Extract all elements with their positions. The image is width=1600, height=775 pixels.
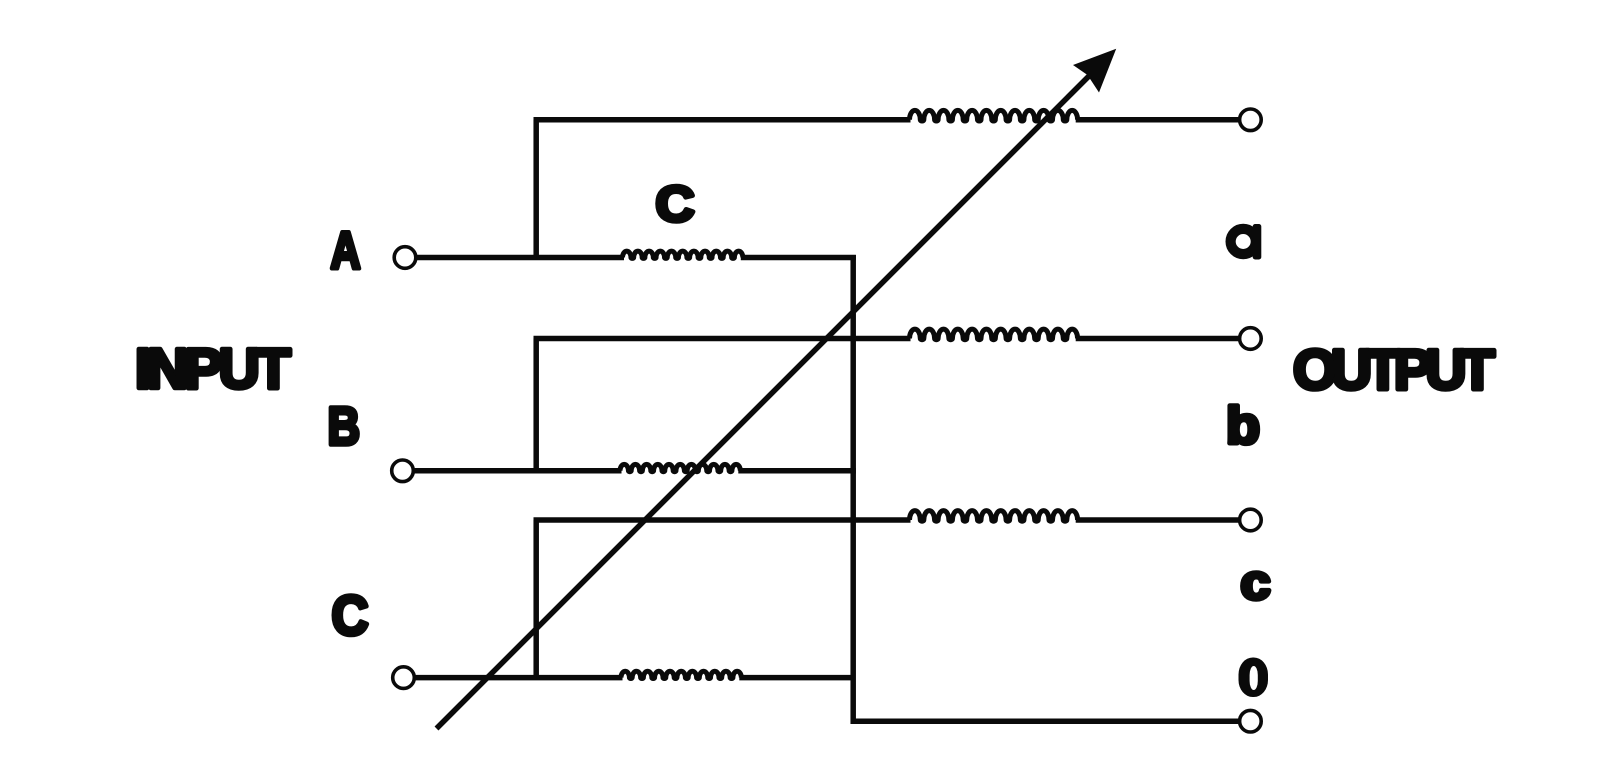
- inductor winding on output line c: [910, 511, 1078, 522]
- wire: vertical riser x=536 from line a down to line B: [533, 339, 539, 471]
- inductor winding on line B: [620, 464, 740, 471]
- wire: top line left segment: [534, 117, 911, 123]
- wire: output line c right segment: [1076, 517, 1239, 523]
- wire: line C right segment to bus: [739, 675, 851, 681]
- wire: line B left segment from input terminal B: [415, 468, 622, 474]
- wire: vertical riser x=536 from top line down to line A: [533, 120, 539, 258]
- svg-text:INPUT: INPUT: [135, 337, 291, 401]
- wire: output line a left segment: [534, 336, 911, 342]
- wire: vertical riser x=536 from line c down to line C: [533, 520, 539, 678]
- inductor winding on top output line: [910, 110, 1078, 121]
- output terminal (second): [1240, 328, 1262, 350]
- input terminal A: [394, 247, 416, 269]
- wire: vertical bus x=853 from line A down to bottom line: [850, 255, 856, 724]
- variable-adjustment arrow head: [1073, 49, 1116, 93]
- wire: line A right segment to bus: [741, 255, 856, 261]
- svg-text:A: A: [331, 222, 361, 280]
- wire: top line right segment: [1076, 117, 1239, 123]
- output terminal a (top): [1240, 109, 1262, 131]
- svg-text:OUTPUT: OUTPUT: [1293, 338, 1495, 402]
- svg-text:C: C: [656, 175, 695, 232]
- svg-text:b: b: [1226, 397, 1260, 455]
- variable-adjustment arrow shaft (diagonal): [437, 73, 1093, 729]
- wire: bottom line from bus to output terminal 0: [851, 718, 1239, 724]
- wire: output line a right segment: [1076, 336, 1239, 342]
- svg-text:C: C: [332, 584, 369, 647]
- inductor winding on output line a: [910, 329, 1078, 340]
- label a (output phase): [1231, 224, 1262, 260]
- output terminal 0 (bottom): [1240, 710, 1262, 732]
- svg-text:c: c: [1241, 556, 1271, 610]
- input terminal B: [392, 460, 414, 482]
- wire: line A left segment from input terminal A: [417, 255, 624, 261]
- wire: output line c left segment: [534, 517, 911, 523]
- wire: line C left segment from input terminal C: [416, 675, 623, 681]
- inductor winding C on line A: [623, 251, 743, 258]
- label 0 (output neutral): [1239, 658, 1269, 698]
- input terminal C: [393, 667, 415, 689]
- wire: line B right segment to bus: [738, 468, 856, 474]
- output terminal (third): [1240, 509, 1262, 531]
- inductor winding on line C: [621, 671, 741, 678]
- svg-text:B: B: [328, 397, 361, 457]
